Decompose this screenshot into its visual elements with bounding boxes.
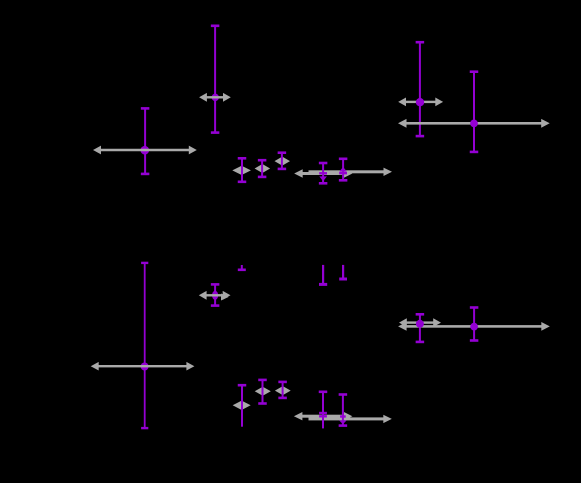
- errorbar point H (x=215 bottom): [211, 284, 220, 305]
- errorbar point G (x=145 bottom tall): [141, 263, 149, 428]
- x-limit diamond arrow K2: [255, 387, 271, 396]
- errorbar point K2 (x=262 bottom): [258, 380, 267, 404]
- marker E: [416, 98, 424, 106]
- x-limit diamond arrow C2: [255, 164, 271, 173]
- errorbar point C1 (x=242 top): [238, 158, 247, 182]
- upper-limit errorbar D1 (x=323 top): [319, 163, 328, 183]
- x-limit small double arrow A: [199, 93, 231, 102]
- lower-limit errorbar D2 (x=343 top): [339, 159, 348, 181]
- errorbar point E (x=420 top): [416, 42, 425, 136]
- x-limit long double arrow B: [93, 146, 197, 155]
- x-limit long double arrow G: [91, 362, 195, 371]
- errorbar point F (x=474 top): [470, 72, 479, 152]
- x-limit diamond arrow C1: [232, 166, 251, 175]
- x-limit long arrow D lower: [294, 169, 352, 177]
- diamond marker H: [212, 291, 218, 300]
- errorbar point K1 (x=242 bottom): [238, 385, 247, 427]
- upper-limit errorbar L2 (x=343 bottom): [339, 395, 348, 426]
- errorbar point J2 (x=474 bottom): [470, 308, 479, 341]
- errorbar point C2 (x=262 top): [258, 160, 267, 177]
- upper-limit errorbar L1 (x=323 bottom): [319, 392, 328, 429]
- errorbar point A (x=215 top): [211, 26, 220, 133]
- x-limit diamond arrow K1: [233, 401, 251, 410]
- x-limit diamond arrow C3: [275, 157, 291, 166]
- x-limit small double arrow H: [199, 291, 231, 300]
- x-limit long arrow L lower: [294, 412, 353, 420]
- x-limit small double arrow E: [398, 98, 443, 107]
- x-limit long double arrow J2: [398, 322, 550, 331]
- errorbar point K3 (x=282 bottom): [278, 382, 287, 398]
- x-limit long arrow L upper: [309, 415, 392, 423]
- errorbar point B (x=145 top): [141, 108, 150, 173]
- marker F: [470, 120, 478, 128]
- x-limit long double arrow F: [398, 119, 550, 128]
- extra lower-right arrowhead H: [221, 294, 229, 301]
- clipped errorbar stub H2 (x=242): [238, 265, 246, 270]
- clipped errorbar I1 (x=323): [319, 265, 327, 285]
- marker J1: [416, 320, 424, 328]
- x-limit long arrow D upper: [309, 168, 393, 176]
- clipped errorbar I2 (x=343): [339, 265, 347, 279]
- x-limit diamond arrow K3: [275, 386, 291, 395]
- x-limit small double arrow J1: [399, 318, 441, 327]
- marker J2: [470, 323, 478, 331]
- errorbar point C3 (x=282 top): [278, 153, 287, 169]
- errorbar point J1 (x=420 bottom): [416, 314, 425, 342]
